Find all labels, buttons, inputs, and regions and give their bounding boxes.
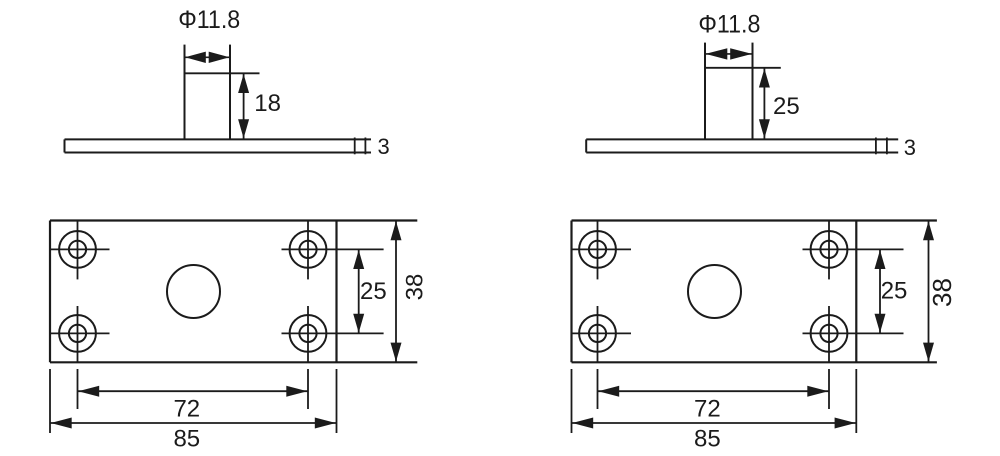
svg-text:72: 72 [173,396,200,423]
wire: left post side line [184,45,186,139]
svg-text:85: 85 [173,425,200,452]
svg-text:38: 38 [402,274,429,301]
plate outline left edge (right) [570,221,572,363]
plate outline right edge [335,221,337,363]
extension line below left col (right plate) [597,369,599,409]
corner hole top-right [282,221,384,279]
corner hole top-left [50,221,110,279]
svg-text:3: 3 [904,135,916,160]
corner hole top-left (right plate) [572,221,632,279]
extension line below left edge [49,369,51,433]
extension line below right edge [336,369,338,433]
post top edge + extension line [185,72,260,74]
extension line below right col [307,369,309,409]
plate side view (right) [586,139,898,152]
plate outline bottom edge + 38 extension (right) [572,361,937,363]
dimension 85 (right plate horizontal) [572,418,857,429]
svg-text:3: 3 [378,134,390,159]
corner hole bottom-left [50,306,110,362]
center hole [167,265,220,318]
dimension arrow Φ11.8 (double arrow) [185,52,231,63]
svg-text:85: 85 [694,425,721,452]
plate outline left edge [49,221,51,363]
svg-text:25: 25 [773,93,800,120]
thickness tick 2 [364,138,366,155]
svg-text:25: 25 [360,278,387,305]
svg-text:18: 18 [254,90,281,117]
dimension arrow Φ11.8 double arrow (right) [705,48,753,59]
extension line below left col [77,369,79,409]
plate outline top edge + 38 extension (right) [572,219,937,221]
center hole (right) [688,265,741,318]
dimension 72 (right plate horizontal) [598,386,830,397]
svg-text:Φ11.8: Φ11.8 [698,11,760,39]
post top edge + extension line (right) [705,67,781,69]
extension line below right col (right plate) [828,369,830,409]
svg-text:72: 72 [694,396,721,423]
corner hole top-right (right plate) [803,221,904,279]
wire: right post side line (right drawing) [752,43,754,139]
svg-text:38: 38 [927,278,957,307]
svg-text:Φ11.8: Φ11.8 [178,6,240,34]
plate side view (left) [65,139,372,152]
thickness tick 1 (right) [875,138,877,155]
dimension 85 (horizontal) [50,418,337,429]
dimension 25 (left plate, vertical) [353,249,364,333]
svg-text:25: 25 [881,277,908,304]
plate outline bottom edge + 38 extension [50,361,417,363]
extension line below left edge (right plate) [571,369,573,433]
dimension 38 (right plate, vertical) [923,221,934,363]
wire: right post side line [229,45,231,139]
corner hole bottom-right (right plate) [803,306,904,362]
dimension 25 (right plate, vertical) [875,249,886,333]
extension line below right edge (right plate) [855,369,857,433]
plate outline right edge (right) [855,221,857,363]
dimension 72 (horizontal) [78,386,309,397]
dimension 25 (right side view) [759,68,770,139]
thickness tick 1 [354,138,356,155]
corner hole bottom-right [282,306,384,362]
dimension 18 (vertical dim line with arrows) [238,73,249,139]
wire: left post side line (right drawing) [704,43,706,139]
thickness tick 2 (right) [886,138,888,155]
corner hole bottom-left (right plate) [572,306,632,362]
dimension 38 (left plate, vertical) [391,221,402,363]
plate outline top edge + 38 extension [50,219,417,221]
